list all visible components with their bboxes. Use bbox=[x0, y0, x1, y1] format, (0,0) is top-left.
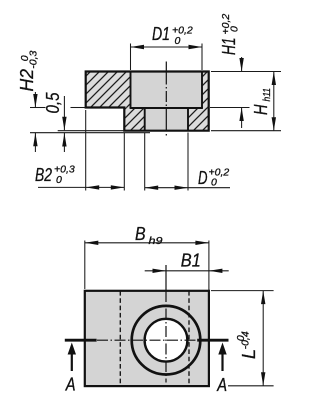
B1 dimension line bbox=[145, 270, 229, 272]
svg-text:0: 0 bbox=[211, 177, 217, 189]
section view part body (grey fill) bbox=[86, 72, 209, 131]
counterbore right edge bbox=[201, 72, 203, 109]
B2 dimension line bbox=[38, 186, 124, 188]
svg-text:H2: H2 bbox=[17, 69, 37, 92]
section arrow right bbox=[218, 343, 226, 355]
svg-text:D: D bbox=[198, 168, 208, 188]
through hole circle D bbox=[145, 319, 188, 362]
L arrow top bbox=[261, 291, 265, 305]
hidden edge dashed line left bbox=[119, 291, 121, 386]
B2 arrow left bbox=[86, 185, 100, 189]
L extension line top bbox=[211, 290, 274, 292]
counterbore circle D1 bbox=[132, 306, 201, 375]
horizontal centerline bottom view bbox=[97, 339, 197, 341]
hatched cut face top-right strip bbox=[202, 72, 209, 108]
section arrow left bbox=[68, 343, 76, 355]
svg-text:H: H bbox=[251, 104, 271, 115]
H1 dimension upper arrow line bbox=[241, 57, 243, 72]
0,5 lower arrowhead bbox=[62, 133, 66, 147]
section plane thick segment left bbox=[65, 339, 97, 342]
svg-text:h9: h9 bbox=[149, 235, 163, 247]
B h9 / B1 extension line right bbox=[208, 241, 210, 291]
svg-text:B1: B1 bbox=[181, 251, 201, 271]
H1 lower arrowhead bbox=[239, 108, 243, 122]
H h11 dimension line bbox=[273, 72, 275, 131]
svg-text:D1: D1 bbox=[152, 24, 170, 44]
part outline bbox=[86, 72, 209, 131]
extension line lip bottom to left (H2) bbox=[30, 107, 46, 109]
svg-text:A: A bbox=[65, 374, 76, 394]
svg-text:A: A bbox=[216, 375, 227, 395]
extension line part bottom right (H h11) bbox=[211, 130, 281, 132]
0,5 upper arrow line bbox=[63, 96, 65, 130]
hole right edge bbox=[187, 108, 189, 131]
D arrow left bbox=[145, 186, 159, 190]
H1 dimension lower arrow line bbox=[241, 108, 243, 129]
svg-text:L: L bbox=[239, 349, 259, 359]
H h11 arrow top bbox=[272, 72, 276, 86]
label H2 with tolerances (rotated) bbox=[17, 50, 40, 91]
counterbore bottom edge bbox=[130, 107, 203, 109]
L dimension line bbox=[262, 291, 264, 386]
label L with tolerances (rotated) bbox=[235, 331, 259, 359]
svg-text:H1: H1 bbox=[219, 38, 239, 56]
counterbore left edge bbox=[130, 72, 132, 109]
H h11 arrow bottom bbox=[272, 117, 276, 131]
svg-text:0: 0 bbox=[229, 26, 241, 32]
B1 arrow right (at right edge) bbox=[209, 269, 223, 273]
B2 extension line right (step edge) bbox=[123, 133, 125, 191]
H2 lower arrow line bbox=[34, 133, 36, 152]
B h9 arrow right bbox=[195, 241, 209, 245]
dimension D1 extension line left bbox=[130, 44, 132, 71]
L arrow bottom bbox=[261, 372, 265, 386]
svg-text:-0,3: -0,3 bbox=[28, 50, 40, 68]
B2 arrow right bbox=[111, 185, 125, 189]
B h9 extension line left bbox=[84, 241, 86, 290]
D extension line right bbox=[187, 133, 189, 191]
svg-text:-0,4: -0,4 bbox=[239, 331, 251, 349]
hatched cut face top-left bbox=[86, 72, 131, 108]
svg-text:B2: B2 bbox=[35, 165, 52, 185]
D1 arrow right bbox=[189, 45, 203, 49]
slot reference line (0,5 lower) bbox=[30, 132, 150, 134]
B h9 dimension line bbox=[85, 242, 209, 244]
extension line counterbore bottom (H1) bbox=[210, 107, 250, 109]
svg-text:B: B bbox=[135, 224, 146, 244]
hatched cut face bottom-right bbox=[188, 108, 209, 131]
label H h11 (rotated) bbox=[251, 88, 273, 115]
B2 extension line left bbox=[85, 110, 87, 191]
H2 upper arrow line bbox=[34, 92, 36, 108]
vertical centerline bottom view bbox=[165, 265, 167, 383]
svg-text:0: 0 bbox=[56, 174, 62, 186]
B1 arrow left (at centerline) bbox=[153, 269, 167, 273]
D1 arrow left bbox=[131, 45, 145, 49]
part bottom extension to left (0,5 upper) bbox=[58, 130, 125, 132]
0,5 lower arrow line bbox=[63, 133, 65, 152]
dimension D1 extension line right bbox=[201, 44, 203, 71]
B h9 arrow left bbox=[85, 241, 99, 245]
L extension line bottom bbox=[228, 385, 274, 387]
H2 lower arrowhead bbox=[33, 133, 37, 147]
label 0,5 (rotated) bbox=[43, 92, 63, 114]
extension line top surface (H1 / H h11) bbox=[211, 71, 281, 73]
bottom view part body bbox=[85, 291, 209, 386]
D extension line left bbox=[144, 133, 146, 191]
dimension D1 line bbox=[131, 46, 203, 48]
svg-text:0: 0 bbox=[175, 35, 181, 47]
D dimension line bbox=[145, 187, 230, 189]
bottom view outline bbox=[85, 291, 209, 386]
section plane thick segment right bbox=[197, 339, 228, 342]
svg-text:0,5: 0,5 bbox=[43, 92, 63, 114]
H1 upper arrowhead bbox=[239, 58, 243, 72]
D arrow right bbox=[175, 186, 189, 190]
svg-text:h11: h11 bbox=[261, 88, 273, 102]
hidden edge dashed line right bbox=[188, 291, 190, 386]
vertical centerline of section bbox=[165, 62, 167, 138]
hatched cut face bottom-left bbox=[124, 108, 144, 131]
H2 upper arrowhead bbox=[33, 94, 37, 108]
0,5 upper arrowhead bbox=[62, 117, 66, 131]
hole left edge bbox=[144, 108, 146, 131]
label H1 with tolerances (rotated) bbox=[219, 14, 241, 55]
